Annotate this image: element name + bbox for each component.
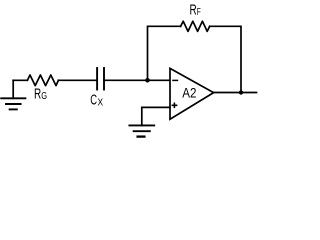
svg-text:A2: A2: [182, 84, 196, 100]
svg-text:F: F: [197, 7, 201, 18]
wire (non-inverting input to ground): [142, 107, 170, 125]
wire (junction up to feedback): [148, 26, 181, 80]
wire (left ground to RG): [13, 79, 27, 81]
svg-text:G: G: [41, 90, 47, 102]
op-amp A2: [170, 68, 214, 119]
wire (CX to op-amp inverting input): [104, 79, 170, 81]
wire (RF to output node): [210, 26, 241, 92]
label RG: [34, 86, 47, 103]
ground (left, at RG input): [1, 80, 25, 109]
resistor RG: [27, 75, 58, 86]
svg-text:R: R: [34, 86, 41, 103]
capacitor CX: [97, 68, 104, 90]
node (output junction): [239, 90, 243, 94]
label CX: [90, 92, 103, 109]
node (inverting input junction): [145, 78, 150, 83]
label RF: [190, 2, 201, 19]
ground (at non-inverting input): [129, 125, 154, 136]
svg-text:X: X: [98, 97, 104, 109]
svg-text:C: C: [90, 92, 97, 109]
svg-text:R: R: [190, 2, 197, 19]
wire (op-amp output): [214, 92, 257, 94]
wire (RG to CX): [58, 79, 96, 81]
resistor RF: [181, 21, 210, 31]
